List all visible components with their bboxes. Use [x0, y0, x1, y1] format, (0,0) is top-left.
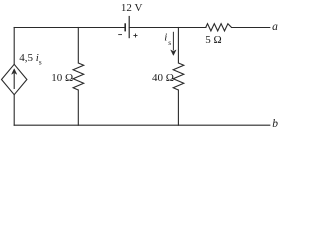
battery plus sign: [133, 34, 137, 38]
svg-text:4,5 is: 4,5 is: [19, 52, 42, 66]
wire top rail: 10-ohm junction to battery negative plate: [78, 27, 125, 29]
battery minus sign: [118, 34, 122, 36]
svg-text:5 Ω: 5 Ω: [205, 34, 221, 46]
wire: left branch above dependent source: [13, 28, 15, 65]
svg-text:12 V: 12 V: [121, 2, 143, 14]
svg-text:i: i: [164, 31, 167, 43]
wire: 10-ohm branch lower lead: [77, 90, 79, 125]
wire top rail: 5-ohm resistor to terminal a: [232, 27, 270, 29]
svg-text:b: b: [272, 118, 278, 130]
wire bottom rail: from dependent source branch to terminal b: [14, 124, 270, 126]
svg-text:a: a: [272, 21, 278, 33]
resistor 40 ohm (vertical zigzag): [173, 63, 184, 90]
wire top rail: battery positive plate to top of 40-ohm branch: [129, 27, 178, 29]
wire: 40-ohm branch upper lead: [177, 28, 179, 64]
wire: 40-ohm branch lower lead: [177, 90, 179, 125]
wire top rail: 40-ohm junction to 5-ohm resistor: [178, 27, 206, 29]
resistor 5 ohm (horizontal zigzag in top rail): [206, 24, 232, 31]
wire: 10-ohm branch upper lead: [77, 28, 79, 64]
current arrow i_s through 40-ohm branch: [171, 32, 176, 56]
svg-text:10 Ω: 10 Ω: [51, 72, 73, 84]
wire: left branch below dependent source: [13, 95, 15, 126]
svg-text:40 Ω: 40 Ω: [152, 72, 174, 84]
dependent current source 4,5 i_s (diamond with up arrow): [2, 64, 27, 94]
wire top rail: left corner to top of 10-ohm branch: [14, 27, 78, 29]
battery 12 V (short negative plate, long positive plate): [125, 16, 129, 38]
resistor 10 ohm (vertical zigzag): [73, 63, 84, 90]
svg-text:s: s: [168, 38, 171, 47]
